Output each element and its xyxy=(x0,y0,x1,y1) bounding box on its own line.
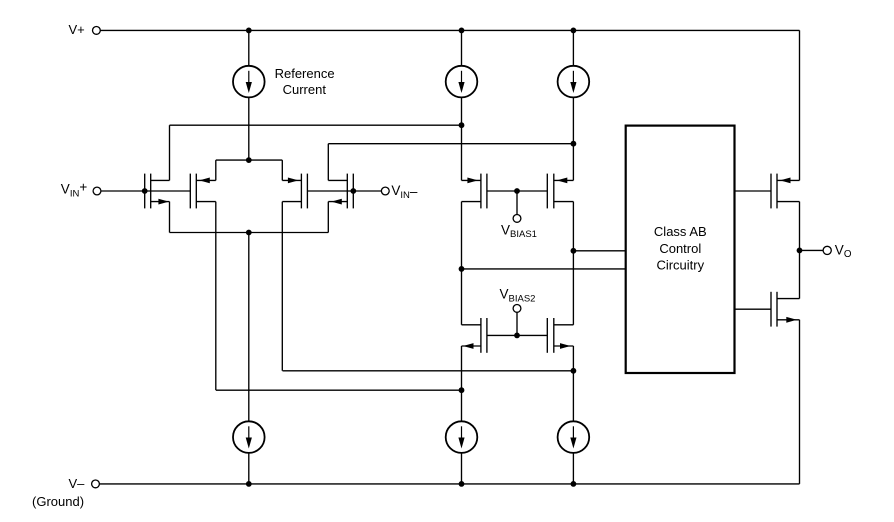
svg-text:VIN+: VIN+ xyxy=(61,179,88,199)
svg-text:V+: V+ xyxy=(69,22,85,37)
svg-text:Current: Current xyxy=(283,82,327,97)
svg-text:VIN–: VIN– xyxy=(391,183,418,201)
svg-text:(Ground): (Ground) xyxy=(32,494,84,509)
svg-text:VBIAS1: VBIAS1 xyxy=(501,222,537,240)
svg-text:VO: VO xyxy=(835,242,852,259)
svg-text:V–: V– xyxy=(69,476,86,491)
svg-text:Control: Control xyxy=(659,241,701,256)
svg-text:Reference: Reference xyxy=(275,66,335,81)
svg-text:Class AB: Class AB xyxy=(654,224,707,239)
svg-text:Circuitry: Circuitry xyxy=(656,258,704,273)
svg-text:VBIAS2: VBIAS2 xyxy=(500,287,536,305)
